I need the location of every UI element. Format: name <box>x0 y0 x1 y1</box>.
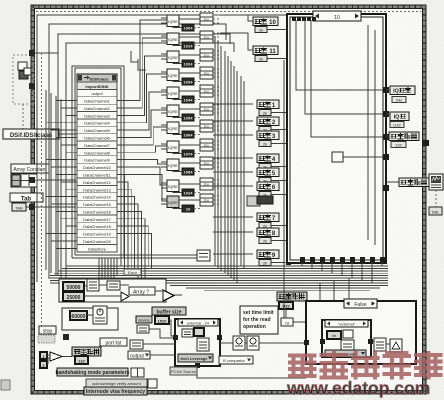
buffer size label <box>152 307 186 315</box>
wire dotted error line left <box>41 53 43 345</box>
timer block 2 <box>247 336 259 350</box>
channel indicator 通道 3 <box>257 131 279 147</box>
wire <box>373 342 390 345</box>
wire serial links <box>220 342 306 344</box>
build array 8 <box>200 139 220 151</box>
tunnel false left <box>304 340 309 345</box>
IQRE block 2 <box>161 33 179 45</box>
tunnels on structure right edge <box>383 87 389 191</box>
case selector label 10 <box>313 11 361 21</box>
tunnel <box>286 178 291 183</box>
wire bus to false case <box>284 60 349 318</box>
wire <box>179 144 200 146</box>
tunnels inner case <box>320 339 373 344</box>
tunnel <box>286 27 291 32</box>
false selector <box>344 299 377 308</box>
prop node small <box>197 338 209 351</box>
wire <box>179 125 200 127</box>
tunnels on structure bottom edge <box>300 257 385 262</box>
numeric 1520 <box>155 316 169 324</box>
wire build to chan10/11 <box>220 15 253 50</box>
wire <box>59 133 77 135</box>
wire <box>173 99 182 100</box>
build array 9 <box>200 157 220 169</box>
wire <box>84 285 182 296</box>
boolean terminal cluster <box>38 335 55 343</box>
IQRE block 10 <box>161 180 179 192</box>
build array 5 <box>200 85 220 97</box>
wire <box>271 262 287 264</box>
wire <box>213 185 253 187</box>
wire <box>173 134 182 135</box>
wire <box>26 206 76 208</box>
channel indicator 通道 2 <box>257 117 279 133</box>
IQRE block 1 <box>161 15 179 27</box>
or gate <box>47 352 72 364</box>
IQRE block 5 <box>161 87 179 99</box>
wire <box>286 309 306 322</box>
port list label <box>100 338 127 346</box>
Array Constant label <box>11 164 49 173</box>
hex constant 10 <box>182 205 194 212</box>
wire <box>271 240 287 242</box>
wire <box>179 36 200 38</box>
wire <box>173 117 182 118</box>
hex constant 1034 <box>182 78 194 85</box>
internode frequency label <box>84 387 147 395</box>
wire <box>37 179 76 181</box>
wire risers from bus to structure bottom tunnels <box>302 262 382 283</box>
build array 6 <box>200 103 220 115</box>
IQRE block 11 <box>161 196 179 208</box>
prop small <box>341 340 354 352</box>
IQRE block 6 <box>161 105 179 117</box>
build array 1 <box>200 13 220 25</box>
wire device to serial panel <box>143 320 306 378</box>
tunnel <box>29 83 35 89</box>
comment box set time limit <box>240 306 278 334</box>
wire <box>213 157 253 159</box>
tunnels serial panel <box>173 335 222 368</box>
wait ms icon <box>93 306 107 324</box>
tunnel <box>286 260 291 265</box>
indicator IQ data <box>386 86 415 103</box>
build array 11 <box>200 194 220 206</box>
wire <box>267 29 287 31</box>
wire <box>271 166 287 168</box>
wire <box>179 162 200 164</box>
wire <box>213 103 253 105</box>
tunnel <box>286 141 291 146</box>
IQRE block 3 <box>161 51 179 63</box>
wire <box>173 45 182 46</box>
tunnel on loop border <box>423 140 429 146</box>
boolean constant 2 <box>40 361 47 368</box>
shift register dot <box>63 334 69 340</box>
waveform chart icon <box>429 174 443 190</box>
channel indicator 通道 4 <box>257 154 279 170</box>
false case structure <box>306 301 416 364</box>
wire <box>179 72 200 74</box>
wire bundle middle verticals to bottom bus <box>215 36 300 283</box>
error out icon <box>390 339 402 352</box>
channel indicator 通道 8 <box>257 228 279 244</box>
output dropdown <box>128 351 150 359</box>
U32 terminal <box>279 302 293 309</box>
wire <box>271 143 287 145</box>
watermark big characters <box>290 353 441 378</box>
tab terminal <box>12 203 26 211</box>
wire dotted top rail <box>36 11 421 13</box>
wire <box>179 54 200 56</box>
build array 10 <box>200 178 220 190</box>
dashed frame left margin <box>13 55 34 104</box>
IQRE block 7 <box>161 122 179 134</box>
cluster block <box>131 368 144 377</box>
wire bus extension lower band <box>170 285 388 290</box>
channel indicator 通道 1 <box>257 100 279 116</box>
wire <box>179 90 200 92</box>
tech Leverage dropdown <box>178 354 213 362</box>
build array 7 <box>200 120 220 132</box>
IQRE block 4 <box>161 69 179 81</box>
wire <box>173 153 182 154</box>
channel indicator 通道 7 <box>257 213 279 229</box>
index block <box>107 281 120 290</box>
baud block <box>182 329 193 337</box>
device label <box>136 316 152 323</box>
indicator channel display 2 <box>386 178 429 187</box>
handshaking mode parameters label <box>56 368 130 376</box>
hex constant 1024 <box>182 60 194 67</box>
Tab control label <box>10 193 43 203</box>
wire fan property node to IQRE column <box>117 20 167 201</box>
channel indicator 通道 5 <box>257 168 279 184</box>
frame timing group <box>62 308 118 330</box>
wire <box>173 27 182 28</box>
icon small grey block <box>247 196 260 206</box>
small terminal <box>148 379 157 388</box>
inner case external <box>322 320 371 357</box>
wire <box>179 183 200 185</box>
wire <box>271 225 287 227</box>
wire <box>213 134 253 136</box>
tunnel <box>29 177 35 183</box>
tunnel <box>286 164 291 169</box>
int block <box>327 331 341 339</box>
visa resource block <box>130 340 143 349</box>
wires inside structure <box>296 20 386 245</box>
frame decimation group <box>59 279 166 302</box>
channel select label <box>277 292 307 301</box>
indicator channel display 1 <box>386 132 419 148</box>
small block <box>343 330 353 338</box>
PCUK Source label <box>170 367 197 375</box>
timer block 1 <box>233 336 245 350</box>
array constant cluster <box>11 174 37 187</box>
DBL terminal <box>429 207 442 215</box>
build array 2 <box>200 31 220 43</box>
paper noise overlay <box>0 0 1 1</box>
channel indicator 通道 9 <box>257 250 279 266</box>
icon cluster in dashed frame <box>18 62 31 79</box>
wire <box>267 58 287 60</box>
Array dropdown <box>129 287 155 295</box>
numeric constant 50000 <box>63 282 84 291</box>
wire dashed stub <box>22 104 24 129</box>
build array 4 <box>200 67 220 79</box>
wire stubs property node left <box>46 101 77 249</box>
tunnel <box>29 204 35 210</box>
numeric 16 block <box>281 318 293 326</box>
small block inside structure <box>332 152 386 162</box>
wire bottom horizontal bus <box>50 266 388 283</box>
wire <box>271 180 287 182</box>
wire <box>271 129 287 131</box>
small terminal block node frame <box>197 250 210 261</box>
wire bundle top-left nested routing <box>37 15 287 282</box>
device terminal <box>137 325 149 333</box>
hex constant 1014 <box>182 42 194 49</box>
comparator dropdown <box>219 356 253 364</box>
icon block <box>87 279 99 291</box>
wire stub from border tunnel <box>35 52 58 54</box>
numeric 132 <box>75 356 88 364</box>
channel indicator 通道 6 <box>257 182 279 198</box>
hex constant 1054 <box>182 114 194 121</box>
wire <box>173 63 182 64</box>
wire <box>173 81 182 82</box>
channel indicator 通道 11 <box>253 46 278 62</box>
build array small triangle <box>121 292 129 301</box>
tunnel <box>286 238 291 243</box>
build array 3 <box>200 49 220 61</box>
wire <box>213 120 253 122</box>
stop label <box>39 326 56 335</box>
wire <box>213 231 253 233</box>
case structure frame (10) <box>287 14 386 263</box>
IQRE block 9 <box>161 159 179 171</box>
wire verticals lower node rows to bottom bus <box>99 167 152 290</box>
tunnel on loop left border <box>29 50 35 56</box>
channel indicator 通道 10 <box>253 17 278 33</box>
wire <box>173 192 182 193</box>
wire <box>87 314 93 316</box>
numeric constant 25000 <box>63 292 84 301</box>
wire <box>173 171 182 172</box>
dark mini label <box>257 196 273 204</box>
wire frame around property node <box>72 66 202 258</box>
wire dashed <box>435 190 437 207</box>
tunnel <box>286 192 291 197</box>
wire <box>179 18 200 20</box>
small icon bottom-left corner <box>1 380 10 390</box>
numeric constant 60000 <box>70 311 87 320</box>
wire <box>179 199 200 201</box>
indicator IQ graph <box>386 112 409 128</box>
Inst Extension dropdown <box>325 350 366 357</box>
hex constant 1024 <box>182 189 194 196</box>
boolean constant 1 <box>40 352 47 359</box>
visa close icon <box>374 338 386 351</box>
wire <box>179 108 200 110</box>
wire vertical bus left of node <box>46 90 66 282</box>
tunnel <box>286 127 291 132</box>
wire <box>173 208 182 209</box>
serial config case structure <box>175 319 220 366</box>
wire <box>271 112 287 114</box>
acquisition count label <box>72 347 101 356</box>
wire <box>213 171 253 173</box>
acknowledge verify amount label <box>86 379 147 387</box>
hex constant 1074 <box>182 150 194 157</box>
hex constant 1064 <box>182 131 194 138</box>
wire <box>271 194 287 196</box>
wire <box>213 216 253 218</box>
tunnel <box>286 110 291 115</box>
bits block <box>194 328 204 336</box>
tunnel <box>286 223 291 228</box>
wire <box>213 253 253 255</box>
DSif.IDSifclass constant <box>3 129 59 139</box>
hex constant 1004 <box>182 24 194 31</box>
hex constant 1044 <box>182 96 194 103</box>
tunnel <box>286 56 291 61</box>
hex constant 1084 <box>182 168 194 175</box>
tunnel row on structure top <box>292 17 316 21</box>
IQRE block 8 <box>161 141 179 153</box>
property node IDSifclass <box>77 74 117 252</box>
multiply triangle <box>163 290 174 301</box>
error label <box>124 269 141 275</box>
